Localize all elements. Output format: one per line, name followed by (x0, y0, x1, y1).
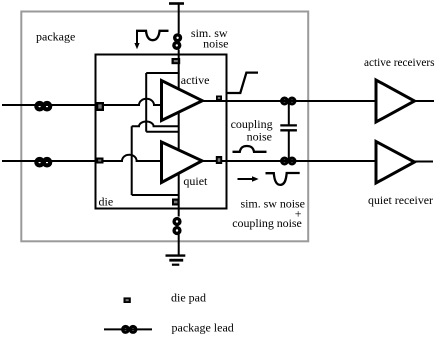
wire: supply vertical above coil (178, 3, 180, 34)
svg-text:die pad: die pad (171, 291, 206, 305)
ground (166, 256, 186, 265)
wire: quiet rail left vertical (131, 126, 133, 195)
svg-text:noise: noise (247, 130, 272, 144)
wire: lower input net (with hop over ground line) (2, 155, 162, 161)
wire: active buffer top rail (146, 72, 179, 74)
wire: ground vertical below coil (178, 233, 180, 256)
wire: upper input net (with hop over power line) (2, 99, 162, 105)
svg-text:package: package (36, 29, 75, 43)
package lead L5 (upper output) (282, 98, 295, 104)
node: VDD die pad (172, 58, 181, 64)
package lead L6 (lower output) (282, 158, 295, 164)
node: GND die pad (172, 199, 180, 206)
package lead L2 (lower input) (36, 159, 50, 165)
wire: quiet buffer top rail (hop over x=146) (132, 122, 179, 127)
wire: supply vertical below coil to die (178, 50, 180, 74)
svg-text:die: die (99, 195, 114, 209)
wire: lower output net (202, 160, 377, 162)
op-amp U1 (active buffer) (162, 81, 203, 121)
waveform: rising edge at active output (227, 73, 259, 93)
svg-text:coupling noise: coupling noise (232, 216, 301, 230)
package boundary (21, 12, 308, 242)
wire: ground vertical to die edge (178, 195, 180, 217)
wire: lower output after receiver (414, 161, 433, 163)
wire: upper output net (202, 100, 377, 102)
node: die pad active output (216, 96, 222, 101)
node: die pad upper input (96, 102, 104, 111)
wire: vertical between buffers (178, 111, 180, 151)
legend: package lead symbol (104, 328, 152, 330)
wire: upper output after receiver (414, 100, 434, 102)
legend: die pad symbol (124, 297, 131, 303)
package lead L4 (ground, vertical) (174, 219, 180, 234)
wire: active rail bottom (146, 131, 179, 133)
waveform: sum noise dip (bottom) (266, 173, 300, 185)
svg-text:package lead: package lead (172, 321, 234, 335)
arrow down (top) (136, 32, 138, 45)
arrow right (bottom annotation) (238, 178, 253, 180)
wire: stub from quiet buffer bottom (178, 170, 180, 195)
wire: stub to active buffer top (178, 73, 180, 90)
package lead L3 (supply, vertical) (174, 35, 181, 48)
package lead L1 (upper input) (36, 103, 50, 109)
svg-text:quiet: quiet (183, 174, 208, 188)
op-amp U3 (active receiver) (376, 80, 415, 122)
svg-text:quiet receiver: quiet receiver (368, 193, 433, 207)
node: die pad lower input (96, 158, 104, 164)
supply terminal T-bar (169, 2, 184, 5)
wire: quiet rail bottom (132, 194, 179, 196)
waveform: coupling noise bump (233, 146, 267, 152)
op-amp U4 (quiet receiver) (376, 142, 415, 184)
wire: active rail left vertical (145, 73, 147, 132)
waveform: sim. sw noise dip (top) (136, 31, 169, 40)
svg-text:active receivers: active receivers (364, 55, 435, 69)
op-amp U2 (quiet buffer) (162, 142, 203, 183)
node: die pad quiet output (216, 156, 222, 164)
capacitor C1 (coupling) (280, 101, 297, 161)
svg-text:noise: noise (203, 37, 228, 51)
die boundary (96, 55, 227, 209)
svg-text:active: active (181, 73, 210, 87)
